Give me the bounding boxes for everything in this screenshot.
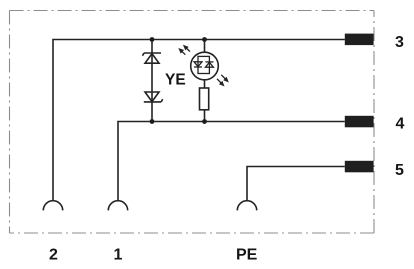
frame (decorative dash-dot border) [10,11,375,234]
junction dot: resistor / net 4 [202,119,207,124]
pin 5 (male contact) [345,161,374,173]
wire net 3: contact 2 up and across to pin 3 [53,40,345,201]
zener diode D2 (bottom, cathode down) [144,92,163,102]
wire: LED/resistor branch vertical [204,40,206,122]
wire: suppressor-diode branch vertical [151,40,153,122]
svg-text:2: 2 [49,246,58,263]
svg-text:1: 1 [114,246,123,263]
svg-text:YE: YE [165,72,186,89]
svg-text:3: 3 [395,34,404,51]
svg-text:PE: PE [236,246,258,263]
resistor R1 [200,88,209,110]
zener diode D1 (top, cathode up) [143,53,162,63]
junction dot: diode branch / net 3 [150,37,155,42]
LED light arrows upper-left [180,46,190,55]
pin 4 (male contact) [345,116,374,128]
LED internal anti-parallel diode pair [194,56,213,73]
socket contact PE [237,201,256,211]
socket contact 1 [108,201,127,211]
wire net 5: contact PE up and across to pin 5 [247,167,345,201]
junction dot: LED branch / net 3 [202,37,207,42]
wire net 4: contact 1 up and across to pin 4 [118,122,345,201]
junction dot: diode branch / net 4 [150,119,155,124]
svg-text:4: 4 [396,116,405,133]
LED U1 (bipolar, yellow) circle body [191,52,219,80]
pin 3 (male contact) [345,34,374,46]
LED light arrows lower-right [217,75,228,86]
svg-text:5: 5 [395,162,404,179]
socket contact 2 [43,201,62,211]
